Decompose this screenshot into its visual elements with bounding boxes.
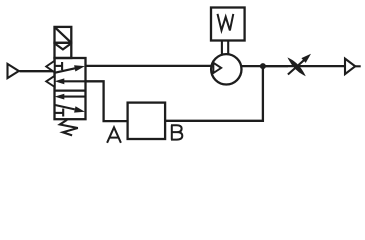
junction node — [260, 63, 266, 69]
valve V1 position divider — [55, 89, 86, 91]
flow device circle — [211, 54, 241, 84]
exhaust triangle S (lower, open) — [46, 76, 55, 87]
label W — [218, 14, 234, 31]
valve V1 pilot box with diagonal — [55, 27, 72, 43]
valve V1 check chevron — [56, 44, 71, 49]
shaft lines motor to circle — [221, 41, 223, 55]
source arrow P (inlet, open triangle) — [8, 64, 19, 78]
throttle restriction arcs — [289, 59, 304, 74]
motor box W — [211, 8, 245, 41]
exhaust triangle R (upper, open) — [46, 61, 55, 73]
return spring — [60, 120, 78, 136]
label B — [171, 125, 182, 139]
position 2: diagonal flow arrow — [55, 105, 75, 110]
measuring box — [128, 103, 166, 139]
valve V1 check box — [55, 43, 72, 58]
wire valve B-port to measuring box A — [86, 81, 128, 121]
flow direction triangle (open) — [213, 63, 221, 73]
valve V1 pilot diagonal — [55, 27, 72, 43]
throttle adjustment arrow — [288, 60, 304, 74]
position 2: flow arrow to exhaust — [63, 96, 85, 98]
outlet arrow (open triangle) — [345, 59, 355, 75]
wire measuring box B to junction — [165, 66, 263, 121]
wire valve A-port to flow circle — [86, 65, 213, 67]
wire inlet to valve P-port — [20, 70, 56, 72]
position 1: flow arrow B->exhaust — [63, 80, 86, 82]
label A — [107, 127, 121, 143]
position 1: diagonal flow arrow P->A — [55, 68, 76, 73]
valve V1 main body outline — [55, 58, 86, 119]
position 1: blocked seat T — [55, 65, 63, 67]
wire circle to junction and throttle — [242, 65, 289, 67]
outlet stub — [355, 65, 361, 67]
position 2: blocked seat T — [55, 112, 64, 114]
